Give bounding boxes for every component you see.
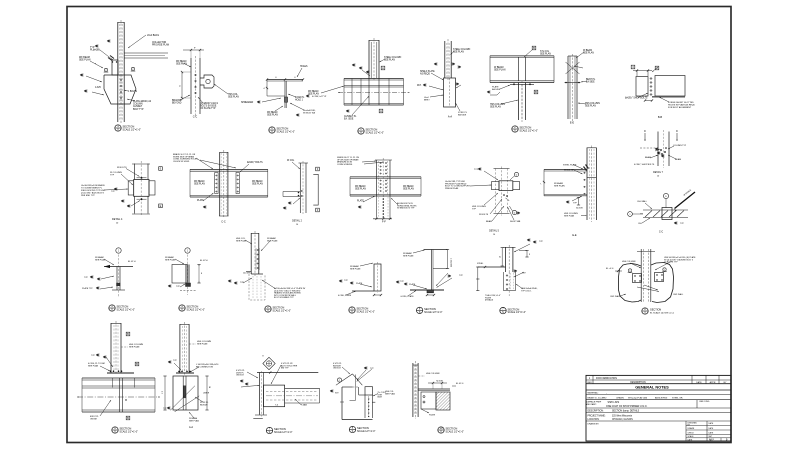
svg-text:FOR FABRICATION: FOR FABRICATION (596, 377, 617, 380)
svg-text:SEE PLAN: SEE PLAN (88, 365, 99, 368)
svg-text:B: B (127, 333, 129, 336)
svg-text:SEE PLAN: SEE PLAN (385, 393, 395, 396)
svg-text:W BOLTS: W BOLTS (479, 214, 489, 216)
svg-text:A 325: A 325 (95, 86, 101, 89)
svg-text:SCALE 1/2"=1'-0": SCALE 1/2"=1'-0" (274, 431, 293, 434)
svg-text:SCALE 1/2"=1'-0": SCALE 1/2"=1'-0" (366, 131, 385, 134)
svg-text:SECTION: SECTION (424, 307, 436, 311)
svg-text:COLUMN TYP: COLUMN TYP (673, 145, 687, 147)
svg-text:WF BEAM: WF BEAM (252, 180, 263, 183)
svg-text:DATE: DATE (688, 438, 693, 441)
detail 6: beam over column, section B (490, 55, 554, 57)
title block (586, 375, 731, 441)
detail 16: diagonal brace at wall C-C (663, 193, 668, 198)
general notes band (586, 389, 731, 391)
svg-text:SCALE 1/2"=1'-0": SCALE 1/2"=1'-0" (424, 311, 443, 314)
svg-text:SEE PLAN: SEE PLAN (453, 51, 464, 54)
detail 24: column over beam grid, section B (110, 323, 112, 373)
svg-text:DETAIL 7: DETAIL 7 (653, 171, 664, 174)
detail 19: column base at footing (250, 233, 252, 274)
svg-text:SEE PLAN: SEE PLAN (197, 343, 208, 346)
svg-text:EL SCALE 1&#189;"=1'-0: EL SCALE 1&#189;"=1'-0 (650, 311, 675, 314)
svg-text:1'-2: 1'-2 (162, 391, 164, 394)
detail 4: beam-column grid plan, section A (368, 40, 370, 79)
svg-text:SEE PLAN: SEE PLAN (554, 185, 565, 188)
detail 23: column through wall opening C-C (640, 249, 642, 302)
svg-text:WT&amp;PLAT: A36: WT&amp;PLAT: A36 (628, 396, 648, 399)
svg-text:W/ BOLT EA: W/ BOLT EA (303, 112, 315, 115)
svg-text:J: J (118, 251, 119, 253)
svg-text:&#190;" SHOP BOLTS: &#190;" SHOP BOLTS (625, 98, 648, 100)
svg-text:TYP: TYP (173, 360, 178, 362)
svg-text:B: B (127, 417, 129, 420)
detail 9: brace gusset DETAIL 4 (133, 164, 135, 180)
detail 22: HSS column base section (505, 247, 507, 272)
svg-text:W BEAM: W BEAM (189, 417, 197, 420)
svg-text:E-E: E-E (572, 234, 577, 237)
svg-text:L6x4 BLDG: L6x4 BLDG (147, 35, 159, 37)
svg-text:SECTION: SECTION (446, 427, 458, 431)
svg-text:325 West Wisconsin: 325 West Wisconsin (612, 414, 633, 417)
svg-text:MATERIAL:: MATERIAL: (588, 391, 599, 394)
svg-text:B: B (136, 363, 138, 366)
detail 18: beam seat section J2 (185, 248, 190, 253)
svg-text:SECTION: SECTION (117, 305, 129, 309)
svg-text:SECTION: SECTION (357, 307, 369, 311)
svg-text:SEE PLAN: SEE PLAN (350, 268, 361, 271)
svg-text:SPREADER: SPREADER (241, 101, 254, 104)
detail 1: column splice with gusset, section B (117, 22, 119, 122)
svg-text:S: S (351, 311, 353, 314)
svg-text:DETAIL 5: DETAIL 5 (489, 230, 500, 233)
svg-text:TYP: TYP (474, 169, 479, 171)
svg-text:SECTION: SECTION (273, 306, 285, 310)
svg-text:PER END TYP: PER END TYP (81, 195, 95, 197)
svg-text:CHANN:: CHANN: (616, 396, 625, 399)
svg-text:ONE COAT OF SHOP PRIMER U.N.O.: ONE COAT OF SHOP PRIMER U.N.O. (606, 405, 648, 408)
right info grid (685, 421, 687, 441)
svg-text:E-E: E-E (570, 122, 575, 125)
svg-text:C-C: C-C (659, 231, 664, 234)
svg-text:WF BEAM: WF BEAM (267, 111, 278, 114)
svg-text:SCALE 1/2"=1'-0": SCALE 1/2"=1'-0" (187, 308, 206, 311)
svg-text:HSS COLUMN: HSS COLUMN (622, 261, 636, 263)
svg-text:A: A (382, 67, 384, 70)
svg-text:(E/GALV): (E/GALV) (485, 299, 494, 302)
svg-text:W/ BM BOLTS TYP: W/ BM BOLTS TYP (397, 208, 415, 210)
revision rows (586, 379, 731, 381)
svg-text:CHECK: CHECK (688, 432, 695, 434)
svg-text:EL +4'-6: EL +4'-6 (606, 268, 614, 270)
svg-text:SCALE 1/2"=1'-0": SCALE 1/2"=1'-0" (123, 128, 142, 131)
detail 7: column splice elevation E-E (567, 56, 569, 119)
svg-text:S: S (111, 309, 113, 312)
svg-text:PLATE: PLATE (429, 414, 436, 417)
svg-text:&#190;" BOLTS: &#190;" BOLTS (247, 162, 263, 164)
svg-text:BEAM: BEAM (645, 156, 651, 159)
svg-text:WF BEAM: WF BEAM (308, 90, 319, 93)
svg-text:WF BEAM: WF BEAM (194, 180, 205, 183)
svg-text:S: S (267, 310, 269, 313)
svg-text:WF BEAM: WF BEAM (79, 56, 90, 59)
svg-text:SHELF PLATE: SHELF PLATE (420, 70, 435, 73)
svg-text:DRAWN BY: DRAWN BY (588, 422, 600, 425)
svg-text:&#190;" SHOP BOLTS: &#190;" SHOP BOLTS (634, 164, 655, 166)
svg-text:SEE PLAN: SEE PLAN (252, 183, 263, 186)
svg-text:ON BOX: ON BOX (236, 375, 244, 377)
svg-text:SCALE 1/2"=1'-0": SCALE 1/2"=1'-0" (520, 129, 539, 132)
svg-text:DETAIL 4: DETAIL 4 (112, 218, 123, 221)
svg-text:S: S (269, 431, 271, 434)
svg-text:SEE PLAN: SEE PLAN (494, 69, 506, 72)
svg-text:BM CONNECTION: BM CONNECTION (196, 367, 214, 369)
svg-text:9": 9" (194, 48, 196, 50)
svg-text:B: B (535, 91, 537, 94)
svg-text:SEE PLAN: SEE PLAN (267, 114, 278, 117)
svg-text:OWL WALL: OWL WALL (610, 295, 621, 298)
svg-text:TYP: TYP (472, 209, 477, 211)
svg-text:14: 14 (208, 386, 210, 388)
svg-text:LOAD PL: LOAD PL (295, 96, 305, 99)
svg-text:SCALE 1/2"=1'-0": SCALE 1/2"=1'-0" (508, 311, 527, 314)
detail 13: DETAIL 5 HSS brace (478, 168, 481, 171)
svg-text:SECTION: SECTION (187, 305, 199, 309)
svg-text:EA SIDE: EA SIDE (492, 88, 501, 91)
svg-text:ON BM: ON BM (90, 419, 97, 421)
svg-text:REV: REV (588, 382, 593, 384)
svg-text:S: S (114, 431, 116, 434)
svg-text:ANGLE/HSS:: ANGLE/HSS: (655, 396, 668, 399)
svg-text:SEE PLAN: SEE PLAN (384, 59, 395, 62)
svg-text:W BEAM: W BEAM (583, 49, 592, 52)
svg-text:SECTION: SECTION (650, 309, 661, 312)
material row (586, 393, 731, 395)
svg-text:W.P.: W.P. (417, 85, 422, 87)
svg-text:TYP: TYP (176, 286, 181, 288)
svg-text:BEYOND: BEYOND (172, 103, 182, 105)
svg-text:EL 42'-6: EL 42'-6 (200, 260, 209, 262)
detail 8: bolted splice plate plan B-B (636, 77, 648, 97)
svg-text:WF BEAM: WF BEAM (355, 185, 366, 188)
svg-text:LINE R: LINE R (203, 393, 210, 395)
svg-text:A-A: A-A (448, 116, 453, 119)
svg-text:SEE PLAN: SEE PLAN (490, 106, 501, 109)
svg-text:OWL WALL: OWL WALL (673, 293, 684, 296)
svg-text:SEE PLAN: SEE PLAN (403, 255, 414, 258)
svg-text:SEE PLAN: SEE PLAN (129, 346, 140, 349)
svg-text:REF. DWG: REF. DWG (700, 401, 710, 403)
svg-text:DESCRIPTION:: DESCRIPTION: (588, 410, 604, 412)
svg-text:EA SIDE: EA SIDE (200, 404, 208, 407)
svg-text:TYP: TYP (680, 223, 685, 225)
svg-text:BEAM: BEAM (486, 220, 492, 223)
svg-text:TYP: TYP (110, 175, 115, 177)
svg-text:S: S (352, 430, 354, 433)
svg-text:7: 7 (541, 183, 543, 184)
svg-text:SEE PLAN: SEE PLAN (308, 93, 319, 96)
svg-text:B-B: B-B (658, 116, 663, 119)
svg-text:DATE: DATE (709, 431, 714, 434)
detail 21: beam with bottom plate section (424, 249, 448, 251)
svg-text:ON BOX: ON BOX (333, 368, 341, 370)
svg-text:SEE PLAN: SEE PLAN (165, 259, 176, 262)
svg-text:DATE: DATE (709, 422, 714, 425)
svg-text:BOLT W/ EMBED TYP: BOLT W/ EMBED TYP (274, 297, 294, 299)
svg-text:WF BEAM: WF BEAM (176, 60, 187, 63)
svg-text:SEE PLAN: SEE PLAN (189, 420, 199, 423)
svg-text:SCALE 1/2"=1'-0": SCALE 1/2"=1'-0" (120, 430, 139, 433)
svg-text:BM TYP: BM TYP (281, 368, 289, 370)
svg-text:SEE PLAN: SEE PLAN (267, 240, 278, 243)
svg-text:SEE PLAN: SEE PLAN (583, 52, 594, 55)
svg-text:BDM: BDM (378, 397, 383, 399)
svg-text:SEE PLAN: SEE PLAN (403, 188, 414, 191)
svg-text:TYP: TYP (459, 275, 464, 277)
svg-text:P-6AM: P-6AM (301, 404, 307, 407)
svg-text:TYP: TYP (84, 277, 89, 279)
svg-text:AND PAINT:: AND PAINT: (586, 403, 597, 406)
svg-text:TYP: TYP (111, 191, 116, 193)
svg-text:TYP: TYP (344, 280, 349, 282)
svg-text:BOLT TYP: BOLT TYP (133, 109, 144, 111)
svg-text:SCALE 1/2"=1'-0": SCALE 1/2"=1'-0" (117, 308, 136, 311)
svg-text:TYP: TYP (91, 355, 96, 357)
svg-text:EA SIDE: EA SIDE (586, 81, 595, 84)
svg-text:SECTION: SECTION (366, 128, 378, 132)
svg-text:SEE PLAN: SEE PLAN (564, 215, 575, 218)
svg-text:STEEL PLATE: STEEL PLATE (563, 164, 577, 167)
svg-text:SECTION: SECTION (120, 427, 132, 431)
svg-text:S: S (440, 431, 442, 434)
svg-text:OF PLATE TYP: OF PLATE TYP (200, 107, 216, 110)
svg-text:PROJECT NAME:: PROJECT NAME: (588, 414, 606, 417)
svg-text:PROVIDE PLAN: PROVIDE PLAN (152, 44, 170, 47)
svg-text:EL 41'-6: EL 41'-6 (456, 383, 464, 385)
svg-text:HOLE 1: HOLE 1 (295, 100, 304, 102)
svg-text:&#190; PLATE: &#190; PLATE (338, 294, 352, 297)
svg-text:GENERAL NOTES: GENERAL NOTES (635, 385, 669, 390)
svg-text:SURFACE PREP: SURFACE PREP (586, 400, 602, 403)
svg-text:W BEAM: W BEAM (95, 256, 104, 259)
svg-text:CONN SCREWS: CONN SCREWS (337, 164, 353, 166)
svg-text:S: S (502, 311, 504, 314)
svg-text:A: A (380, 110, 382, 113)
svg-text:SEE PLAN: SEE PLAN (194, 183, 205, 186)
svg-text:&#190;"x4 TYP: &#190;"x4 TYP (312, 96, 327, 98)
svg-text:1'-0&#189;: 1'-0&#189; (450, 258, 452, 268)
svg-text:SECTION: SECTION (123, 125, 135, 129)
svg-text:W BOLTS: W BOLTS (117, 167, 127, 169)
svg-text:SECTION: SECTION (277, 127, 289, 131)
svg-text:DATE: DATE (696, 381, 702, 384)
svg-text:7&#188;: 7&#188; (436, 381, 444, 383)
steel grades row (586, 399, 731, 401)
svg-text:STEEL: STEEL (477, 263, 484, 265)
svg-text:S: S (419, 311, 421, 314)
svg-text:1&#189;: 1&#189; (243, 273, 251, 275)
svg-text:A-A: A-A (189, 426, 193, 429)
svg-text:S: S (514, 130, 516, 133)
svg-text:S: S (360, 132, 362, 135)
svg-text:DESCRIPTION: DESCRIPTION (630, 382, 646, 384)
svg-text:LOCATION:: LOCATION: (588, 418, 600, 421)
svg-text:DRAWN: DRAWN (688, 427, 695, 430)
svg-text:C-C: C-C (193, 116, 198, 119)
svg-text:HOLES: HOLES (300, 66, 308, 68)
svg-text:SECTION &amp; DETAILS: SECTION &amp; DETAILS (612, 409, 640, 412)
svg-text:PRELIM PLAN: PRELIM PLAN (445, 187, 459, 190)
svg-text:W BEAM: W BEAM (267, 237, 276, 240)
svg-text:3&#189;: 3&#189; (576, 208, 583, 210)
svg-text:EA SIDE: EA SIDE (458, 114, 467, 117)
svg-text:CLEVIS W/ SDWL: CLEVIS W/ SDWL (173, 161, 190, 163)
svg-text:&#190; PLATE: &#190; PLATE (401, 295, 415, 298)
svg-text:W BEAM: W BEAM (350, 265, 359, 268)
svg-text:BEAM: Gr. 50, A992: BEAM: Gr. 50, A992 (588, 396, 608, 399)
svg-text:SCALE: SCALE (688, 435, 695, 438)
svg-text:PLATE: PLATE (492, 86, 499, 89)
svg-text:SCALE 1/2"=1'-0": SCALE 1/2"=1'-0" (446, 430, 465, 433)
svg-text:SEE PLAN: SEE PLAN (355, 188, 366, 191)
svg-text:SECTION: SECTION (520, 126, 532, 130)
svg-text:PLATE TYP: PLATE TYP (82, 287, 93, 290)
svg-text:S: S (271, 131, 273, 134)
svg-text:PLATE &#190;x12: PLATE &#190;x12 (133, 100, 152, 103)
svg-text:TYP U.N.O.: TYP U.N.O. (521, 291, 532, 293)
detail 15: DETAIL 7 beam plan (644, 133, 646, 141)
svg-text:SSPC-SP2: SSPC-SP2 (608, 401, 620, 404)
svg-text:W BEAM: W BEAM (554, 182, 563, 185)
surface prep rows (586, 407, 731, 409)
description row (586, 412, 731, 414)
svg-text:SCALE 1/2"=1'-0": SCALE 1/2"=1'-0" (277, 130, 296, 133)
svg-text:DATE: DATE (709, 427, 714, 430)
svg-text:TYP: TYP (539, 241, 544, 243)
svg-text:SECTION: SECTION (508, 307, 520, 311)
detail 25: column on beam box section A-A (179, 324, 181, 373)
detail 17: beam seat section J (116, 248, 121, 253)
svg-text:SCALE 1/2"=1'-0": SCALE 1/2"=1'-0" (357, 310, 376, 313)
svg-text:FOR BOLT ALIGNMENT: FOR BOLT ALIGNMENT (668, 106, 692, 109)
svg-text:SHOP TAB: SHOP TAB (510, 220, 521, 223)
svg-text:SEE PLAN: SEE PLAN (540, 53, 551, 56)
svg-text:SEE PLAN: SEE PLAN (228, 96, 239, 99)
svg-text:S: S (117, 129, 119, 132)
svg-text:W.P.: W.P. (335, 393, 339, 395)
svg-text:BOLTS EA SIDE: BOLTS EA SIDE (200, 105, 217, 108)
svg-text:SCALE 1/2"=1'-0": SCALE 1/2"=1'-0" (357, 430, 376, 433)
svg-text:OF 5: OF 5 (709, 440, 713, 442)
svg-text:SCALE 1/2"=1'-0": SCALE 1/2"=1'-0" (273, 309, 292, 312)
svg-text:TYP: TYP (573, 203, 578, 205)
svg-text:SEE PLAN: SEE PLAN (79, 59, 91, 62)
svg-text:STEEL GR.: STEEL GR. (672, 397, 683, 399)
svg-text:1 BOLTS: 1 BOLTS (128, 91, 137, 93)
svg-text:E: E (160, 168, 162, 171)
svg-text:PL&#189;: PL&#189; (90, 50, 101, 52)
svg-text:W BEAM: W BEAM (403, 252, 412, 255)
svg-text:HSS COLUMN: HSS COLUMN (426, 373, 440, 375)
svg-text:CHL WALL: CHL WALL (637, 200, 648, 203)
detail 5: column section A-A (444, 41, 446, 78)
svg-text:CHICAGO, ILLINOIS: CHICAGO, ILLINOIS (612, 418, 633, 421)
svg-text:F-F: F-F (382, 221, 386, 224)
svg-text:EA. SIDE: EA. SIDE (344, 118, 354, 121)
detail 3: tee hanger section (267, 79, 303, 81)
svg-text:BRKT: BRKT (424, 100, 430, 102)
detail 14: beam to column section E-E (586, 148, 588, 221)
detail 2: plate elevation section C-C (190, 58, 192, 114)
svg-text:J: J (187, 251, 188, 253)
svg-text:W BEAM: W BEAM (165, 256, 174, 259)
svg-text:S: S (181, 309, 183, 312)
svg-text:BEAM: BEAM (675, 158, 681, 161)
svg-text:E: E (160, 205, 162, 208)
svg-text:B: B (533, 47, 535, 50)
svg-text:C-C: C-C (221, 221, 226, 224)
svg-text:W BEAM: W BEAM (494, 66, 504, 69)
svg-text:DETAIL 2: DETAIL 2 (292, 220, 303, 223)
svg-text:SECTION: SECTION (274, 427, 286, 431)
detail 28: shelf bracket with hatched block (412, 363, 414, 417)
svg-text:WF BEAM: WF BEAM (403, 185, 414, 188)
svg-text:EL 41'-6: EL 41'-6 (128, 261, 137, 263)
svg-text:7'-6: 7'-6 (275, 404, 278, 406)
svg-text:W COL: W COL (287, 160, 295, 162)
svg-text:SEE PLAN: SEE PLAN (585, 105, 596, 108)
detail 26: edge beam plan, detail 8 (263, 357, 275, 369)
svg-text:SECTION: SECTION (357, 426, 369, 430)
svg-text:APPR: APPR (710, 381, 716, 384)
svg-text:W BOLTS: W BOLTS (564, 169, 574, 171)
svg-text:AS REQD: AS REQD (420, 73, 430, 76)
detail 20: end plate section (374, 264, 381, 291)
svg-text:TYP: TYP (400, 281, 405, 283)
